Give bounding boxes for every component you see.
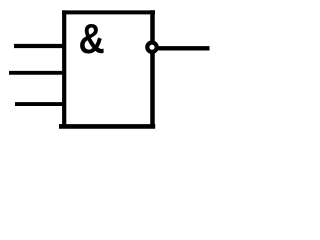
wire input 1 — [14, 44, 66, 48]
label & (AND function) — [78, 17, 104, 63]
inversion bubble on output — [147, 43, 156, 52]
wire input 3 — [15, 102, 66, 106]
wire input 2 — [9, 71, 66, 75]
gate body U1 (IEC AND-gate rectangle) — [59, 10, 155, 128]
wire output — [158, 46, 209, 50]
svg-text:&: & — [78, 17, 104, 63]
